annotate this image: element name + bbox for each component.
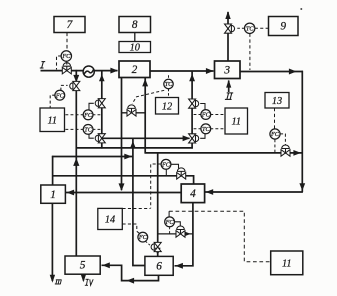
signal TC-L to box11L bbox=[65, 128, 84, 130]
svg-text:FC: FC bbox=[61, 53, 71, 60]
signal TC9 to vent bulb bbox=[237, 27, 245, 29]
svg-text:12: 12 bbox=[162, 101, 172, 112]
signal TC-L to bulb bbox=[89, 134, 94, 138]
signal FC-L to bulb bbox=[89, 103, 94, 110]
svg-text:FC: FC bbox=[138, 234, 148, 241]
controller FC above y234 valve bbox=[165, 217, 175, 227]
signal FC-R pipe tap bbox=[193, 114, 201, 116]
signal TC-R pipe tap bbox=[193, 128, 201, 130]
node label IV bbox=[85, 279, 93, 285]
node label III bbox=[55, 280, 62, 284]
svg-text:11: 11 bbox=[47, 115, 57, 126]
wire y138 cross line bbox=[102, 137, 190, 139]
box 11 bottom right bbox=[271, 251, 303, 275]
valve reflux below box2 bbox=[127, 110, 136, 117]
svg-text:TC: TC bbox=[202, 126, 210, 133]
wire overhead line box1 to box4 bbox=[52, 176, 194, 184]
box 8 bbox=[119, 17, 151, 33]
signal FC6a tap bbox=[169, 227, 171, 234]
wire stream IV from box5 bbox=[82, 274, 84, 280]
wire x133 down to box6 left bbox=[133, 138, 145, 265]
wire feed stream I to box2 bbox=[41, 70, 118, 72]
wire box6 bottom loop to box5 bbox=[102, 265, 159, 280]
svg-text:13: 13 bbox=[272, 96, 282, 107]
valve x192 lower bbox=[189, 134, 196, 143]
controller FC left of box6 valve bbox=[138, 232, 148, 242]
valve feed control bbox=[62, 67, 71, 74]
svg-text:3: 3 bbox=[223, 64, 230, 76]
svg-text:10: 10 bbox=[130, 43, 141, 54]
signal FC6a to valve bbox=[174, 222, 180, 226]
svg-text:11: 11 bbox=[282, 258, 292, 269]
box 7 bbox=[54, 17, 85, 33]
svg-text:2: 2 bbox=[132, 64, 138, 76]
heat exchanger on feed line bbox=[83, 66, 94, 77]
wire box3 vent riser bbox=[227, 12, 229, 61]
svg-text:FC: FC bbox=[55, 92, 65, 99]
node down flow arrow bbox=[73, 75, 79, 83]
wire stream II stub bbox=[228, 81, 230, 93]
wire box4 to box1 bbox=[66, 192, 181, 194]
controller TC right of box2 bbox=[164, 79, 173, 88]
wire header into x133 bbox=[52, 156, 133, 158]
wire valve line into box4 riser bbox=[158, 233, 193, 235]
svg-text:FC: FC bbox=[270, 131, 280, 138]
wire right riser down bbox=[301, 71, 303, 192]
controller TC left cluster bbox=[83, 124, 93, 134]
wire box2 bottoms left bbox=[121, 78, 123, 191]
box 4 bbox=[181, 184, 204, 203]
svg-text:8: 8 bbox=[132, 19, 138, 31]
signal TC-L pipe tap bbox=[93, 128, 101, 130]
wire box3 to right riser bbox=[240, 71, 303, 73]
signal box14 upper link bbox=[123, 208, 151, 210]
wire box2 to box3 bbox=[150, 70, 214, 72]
box 1 bbox=[41, 185, 66, 203]
svg-text:FC: FC bbox=[201, 112, 211, 119]
valve x102 lower bbox=[98, 134, 105, 143]
valve x76 branch bbox=[73, 81, 80, 90]
box 14 bbox=[98, 208, 123, 229]
signal TC2 tap up bbox=[168, 75, 170, 79]
svg-text:FC: FC bbox=[165, 219, 175, 226]
signal FC-R to box11M bbox=[210, 114, 225, 116]
signal FC11L to bulb bbox=[61, 85, 68, 90]
controller FC near box4 valve bbox=[161, 159, 171, 169]
box 5 bbox=[65, 256, 100, 274]
wire x192 recycle riser bbox=[191, 71, 193, 149]
signal TC-R to bulb bbox=[200, 134, 205, 139]
signal FC-L to box11L bbox=[65, 114, 84, 116]
signal FC4 to dashed trunk bbox=[151, 164, 161, 208]
valve overhead line to box4 bbox=[177, 173, 186, 180]
controller FC below box13 bbox=[270, 129, 280, 139]
wire reflux valve stub bbox=[122, 112, 146, 114]
valve x192 upper bbox=[189, 99, 196, 108]
wire FC valve stem bbox=[66, 61, 68, 65]
signal TC2 to reflux valve bbox=[132, 90, 164, 103]
wire box2 reflux right riser bbox=[144, 78, 146, 154]
svg-text:FC: FC bbox=[161, 161, 171, 168]
signal TC-R to box11M bbox=[210, 128, 225, 130]
signal box13 to FC13 bbox=[274, 108, 276, 129]
node label I bbox=[40, 62, 45, 68]
signal TC9 to box9 bbox=[255, 27, 268, 29]
controller TC near box9 bbox=[245, 23, 255, 33]
signal TC2 to box12 bbox=[168, 89, 170, 98]
svg-text:1: 1 bbox=[50, 189, 56, 201]
signal FC-R to bulb bbox=[200, 104, 205, 111]
wire box4 bottom to box6 right bbox=[175, 203, 193, 266]
box 11 middle bbox=[225, 108, 248, 134]
controller FC feed bbox=[61, 51, 71, 61]
signal FC feed tap bbox=[57, 56, 62, 70]
wire x158 down to box6 top bbox=[157, 152, 159, 256]
wire x102 recycle riser bbox=[101, 71, 103, 149]
svg-text:6: 6 bbox=[156, 260, 162, 272]
svg-text:5: 5 bbox=[80, 260, 86, 272]
box 11 left bbox=[40, 108, 65, 132]
signal FC13 to valve bbox=[280, 134, 285, 145]
signal FC13 tap bbox=[274, 139, 276, 152]
svg-text:4: 4 bbox=[190, 188, 196, 200]
controller TC right cluster bbox=[201, 124, 211, 134]
valve above box6 bbox=[154, 242, 161, 251]
controller FC right cluster bbox=[201, 110, 211, 120]
wire box1 top riser bbox=[52, 156, 54, 185]
valve x102 upper bbox=[98, 99, 105, 108]
wire stream III from box1 bbox=[51, 203, 53, 281]
signal box7 to FC bbox=[66, 33, 68, 51]
wire box8 box10 link bbox=[134, 33, 136, 42]
node label II bbox=[225, 93, 233, 100]
wire x76 feed branch down bbox=[75, 70, 77, 256]
signal FC6b to bulb bbox=[145, 241, 150, 245]
svg-text:TC: TC bbox=[165, 81, 173, 88]
box 2 bbox=[119, 61, 150, 78]
signal FC-L pipe tap bbox=[93, 114, 101, 116]
box 10 bbox=[119, 42, 151, 53]
signal FC4 to valve bbox=[171, 164, 179, 168]
signal TC9 tap down bbox=[249, 34, 251, 70]
box 13 bbox=[265, 93, 289, 109]
valve right y153 bbox=[281, 150, 290, 157]
controller FC near box11L bbox=[55, 90, 65, 100]
wire y153 line to right riser bbox=[145, 152, 303, 154]
node up flow arrow from box5 bbox=[73, 158, 79, 166]
box 9 bbox=[269, 17, 299, 36]
svg-text:14: 14 bbox=[105, 215, 115, 226]
valve vent above box3 bbox=[225, 24, 232, 33]
signal box14 lower to FC6b bbox=[123, 224, 141, 234]
wire bottoms header y148 bbox=[76, 147, 193, 149]
valve y234 line bbox=[176, 231, 185, 238]
controller FC left cluster bbox=[83, 110, 93, 120]
svg-text:9: 9 bbox=[280, 21, 286, 33]
box 3 bbox=[215, 61, 241, 79]
signal FC11L to box11 bbox=[50, 95, 55, 107]
box 6 bbox=[145, 256, 173, 275]
signal FC4 pipe tap bbox=[165, 169, 167, 175]
svg-text:11: 11 bbox=[231, 117, 241, 128]
ink speck bbox=[300, 8, 302, 10]
svg-text:FC: FC bbox=[83, 112, 93, 119]
svg-text:TC: TC bbox=[246, 25, 254, 32]
box 12 bbox=[156, 98, 179, 115]
wire right to box4 bbox=[205, 191, 303, 193]
signal trunk to box11BR bbox=[169, 211, 270, 262]
signal FC6a riser bbox=[168, 211, 170, 217]
svg-text:TC: TC bbox=[84, 127, 92, 134]
